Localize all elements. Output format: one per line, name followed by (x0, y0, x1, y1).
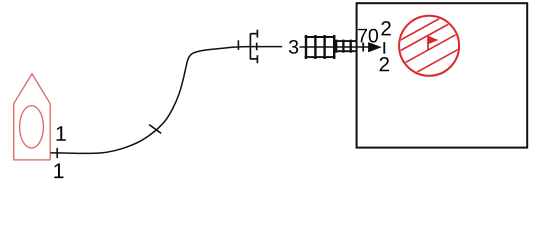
label 3 (in wire gap) (289, 40, 298, 54)
flag (428, 36, 438, 45)
small ladder symbol (cable section into box) (334, 40, 356, 53)
junction cross tick at wire start (56, 148, 58, 158)
ellipse inside house (20, 106, 44, 148)
tick on wire inside box (362, 43, 364, 52)
big ladder symbol (cable section) (305, 35, 336, 59)
label 2 (upper) (381, 21, 390, 35)
pin tick between labels (383, 42, 385, 54)
wire stub into box (357, 46, 369, 48)
label 2 (lower) (380, 57, 389, 71)
arrowhead (369, 43, 381, 52)
flag pole (427, 37, 429, 51)
hatch lines in circle (396, 4, 466, 84)
red target circle (goal with flag) (399, 16, 459, 76)
tick on wire before bracket (237, 40, 239, 50)
label 1 (upper, at house pin) (57, 126, 66, 141)
label 70 (358, 29, 378, 43)
bracket connector symbol (250, 30, 257, 64)
box (enclosure / sheet) (357, 3, 528, 147)
label 1 (lower, at house pin) (54, 164, 63, 179)
house symbol (red building, start node) (14, 74, 51, 160)
wire from label 3 to box (300, 46, 357, 48)
wire (curved net from house to bracket) (51, 47, 251, 154)
slash tick on curve (149, 125, 161, 134)
wire from bracket to label 3 (250, 46, 282, 48)
